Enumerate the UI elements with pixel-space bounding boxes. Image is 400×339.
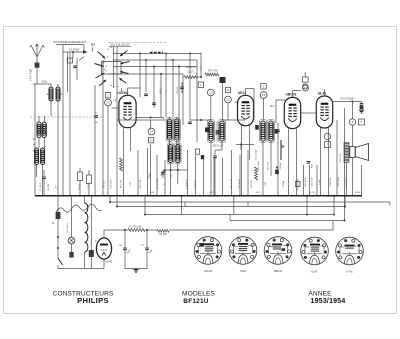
- coil S23 IF3 primary: [260, 120, 267, 143]
- coil S5: [35, 148, 39, 152]
- terminal circle 15b: [260, 92, 267, 99]
- tube V1 UCH42: [119, 95, 136, 127]
- resistor R51 blob: [89, 250, 94, 257]
- wire ift2 tails: [210, 141, 212, 196]
- terminal circle 9: [349, 119, 355, 125]
- antenna: [30, 44, 44, 57]
- terminal circle 10: [207, 89, 214, 96]
- wire HT rail 2: [117, 206, 345, 208]
- wire dial lamp: [304, 72, 306, 77]
- wire left component stubs: [79, 168, 81, 172]
- svg-text:50nF: 50nF: [149, 173, 151, 179]
- wire osc verticals: [139, 54, 141, 98]
- coil L23: [175, 143, 182, 164]
- capacitor C41: [307, 161, 311, 163]
- wire UBC41 pins: [288, 128, 290, 196]
- svg-text:UY41: UY41: [106, 260, 113, 264]
- svg-text:110-127V: 110-127V: [67, 223, 69, 233]
- tube base UBC41: [264, 237, 292, 265]
- wire ift1 core: [172, 119, 174, 140]
- svg-text:C10 50nF: C10 50nF: [111, 179, 113, 189]
- wire mid horizontals: [117, 119, 151, 121]
- tube base UL41: [301, 237, 329, 265]
- terminal box 3: [261, 84, 266, 89]
- svg-text:C4 470: C4 470: [177, 86, 179, 94]
- tube base UF41: [229, 237, 257, 265]
- svg-text:425-112pF: 425-112pF: [213, 146, 225, 148]
- svg-text:UY41: UY41: [346, 270, 353, 274]
- svg-text:UBC41: UBC41: [274, 269, 283, 273]
- capacitor osc caps: [144, 93, 148, 95]
- tube base UCH42: [194, 237, 222, 265]
- wire speaker leads: [346, 163, 348, 197]
- svg-text:UF41: UF41: [238, 91, 246, 95]
- svg-text:+85V: +85V: [149, 192, 155, 194]
- wire grid link: [236, 144, 254, 146]
- volume potentiometer R30: [280, 140, 282, 160]
- svg-text:14: 14: [150, 130, 154, 134]
- wire band bus 3: [113, 66, 197, 68]
- svg-text:UCH42: UCH42: [204, 269, 213, 273]
- coil S22 IF2 secondary: [219, 120, 226, 143]
- capacitor C4 470: [180, 86, 184, 88]
- resistor R52: [128, 229, 145, 232]
- wire right verticals: [303, 165, 305, 196]
- coil L21 osc: [173, 118, 180, 142]
- wire osc coil links: [38, 116, 40, 122]
- wire UF41 pins: [241, 126, 243, 197]
- terminal circle 10 grid: [105, 99, 112, 106]
- wire HT rail 4: [230, 220, 345, 222]
- svg-text:C46 0.02: C46 0.02: [340, 153, 342, 163]
- wire UCH42 grid: [107, 106, 109, 196]
- resistor R27 vertical: [255, 167, 258, 180]
- wire ift3 core: [266, 121, 268, 141]
- wire terminal drop: [150, 120, 152, 130]
- svg-text:243a: 243a: [41, 81, 47, 84]
- svg-text:PU/CADRE ANTENNE EXT: PU/CADRE ANTENNE EXT: [53, 40, 87, 44]
- terminal circle 15: [225, 96, 232, 103]
- terminal box 12: [225, 88, 230, 93]
- svg-text:R6 0.7M: R6 0.7M: [268, 162, 270, 170]
- svg-text:R27 1M: R27 1M: [251, 180, 253, 188]
- svg-text:10: 10: [209, 91, 213, 95]
- wire dashed core: [30, 116, 104, 118]
- wire UL41 pins: [320, 128, 322, 197]
- capacitor C9 box: [87, 175, 92, 184]
- svg-text:UF41: UF41: [240, 269, 247, 273]
- svg-text:R33 0.47M: R33 0.47M: [298, 178, 300, 189]
- wire mains bottom: [58, 268, 104, 270]
- wire heater rail: [104, 229, 128, 231]
- svg-text:+62V: +62V: [255, 192, 261, 194]
- coil S4 osc secondary: [42, 122, 46, 126]
- capacitor C25: [276, 129, 280, 131]
- svg-text:C1 47nF: C1 47nF: [40, 182, 42, 191]
- svg-text:UL41: UL41: [318, 92, 326, 96]
- svg-text:PHILIPS: PHILIPS: [77, 296, 109, 305]
- capacitor C22 padding: [216, 130, 220, 135]
- capacitor C21 square: [205, 128, 209, 133]
- wire ift2 core: [215, 121, 217, 141]
- svg-text:ANNEE: ANNEE: [308, 290, 332, 297]
- speaker LS: [350, 147, 355, 158]
- wire antenna lead: [36, 57, 38, 63]
- svg-text:C6 470pF: C6 470pF: [69, 49, 80, 52]
- wire UY41 leads: [103, 230, 105, 238]
- resistor R5 vertical: [120, 158, 123, 171]
- capacitor C35 blob: [275, 170, 279, 175]
- svg-text:R44 150: R44 150: [330, 177, 332, 186]
- svg-text:15: 15: [262, 93, 266, 97]
- wire HT rail 3: [145, 214, 334, 216]
- coil S1 aerial primary: [49, 87, 53, 91]
- lamp symbol dial: [302, 77, 308, 82]
- svg-text:0.1µF: 0.1µF: [319, 179, 321, 185]
- capacitor C8 box: [78, 172, 83, 181]
- svg-text:C45 22nF: C45 22nF: [338, 177, 340, 187]
- svg-text:C1 10: C1 10: [187, 71, 194, 74]
- terminal box 7: [325, 142, 331, 148]
- svg-text:+185V: +185V: [354, 192, 361, 194]
- capacitor group det: [196, 149, 200, 154]
- wire HT rail 1: [110, 201, 390, 203]
- wire switch verticals: [113, 47, 115, 88]
- wire band bus 4: [108, 73, 183, 75]
- wire coil bottoms: [36, 165, 38, 178]
- capacitor C24 square: [255, 125, 259, 130]
- terminal box 2: [105, 93, 110, 98]
- wire rail drops: [109, 196, 111, 202]
- ground C44: [359, 109, 364, 111]
- svg-text:3300pF: 3300pF: [280, 162, 282, 170]
- svg-text:UBC41: UBC41: [285, 93, 296, 97]
- chassis ground bus: [35, 195, 362, 197]
- pilot lamp E10: [71, 196, 73, 237]
- wire UBC41 top: [292, 91, 294, 98]
- resistor R50 dropper curls: [84, 196, 86, 203]
- wire output lead: [352, 102, 354, 119]
- svg-text:1.25-112pF: 1.25-112pF: [256, 149, 258, 161]
- ground smoothing: [133, 269, 138, 271]
- terminal box 13: [148, 138, 153, 143]
- svg-text:R1 1M: R1 1M: [48, 184, 50, 191]
- wire UCH42 pins: [123, 127, 125, 196]
- coil S3 osc primary: [37, 122, 41, 126]
- svg-text:10: 10: [106, 101, 110, 105]
- wire ift2 feed: [227, 103, 229, 120]
- svg-text:8-2200µF: 8-2200µF: [346, 177, 348, 187]
- svg-text:R1 400: R1 400: [159, 234, 167, 236]
- tube V4 UL41: [316, 96, 332, 128]
- wire ift3 tails: [262, 141, 264, 196]
- wire UF41 top: [245, 89, 247, 96]
- wire UL41 top anode: [324, 89, 326, 96]
- wire dark dashes: [150, 52, 163, 54]
- svg-text:UCH42: UCH42: [117, 91, 128, 95]
- svg-text:R40 470k: R40 470k: [305, 176, 307, 186]
- capacitor C51: [145, 247, 149, 249]
- svg-text:R17 47k: R17 47k: [208, 70, 218, 73]
- wire mid verticals: [121, 88, 123, 92]
- resistor R53: [157, 229, 169, 232]
- capacitor AVC link: [94, 115, 98, 117]
- tube V5 UY41: [96, 238, 111, 259]
- svg-text:BF121U: BF121U: [183, 298, 209, 305]
- wire mixer drops: [210, 96, 212, 120]
- transformer S30 output: [344, 143, 349, 163]
- svg-text:C1 4-70pF: C1 4-70pF: [29, 68, 33, 81]
- terminal small box: [295, 182, 300, 187]
- capacitor C15 electrolytic: [220, 77, 226, 83]
- wire band bus 2: [113, 59, 197, 61]
- terminal circle 7: [324, 133, 330, 139]
- svg-text:AF2: AF2: [270, 105, 275, 108]
- coil S6: [41, 148, 45, 152]
- terminal circle 14: [148, 128, 155, 135]
- svg-text:R51 1.8k: R51 1.8k: [140, 179, 142, 189]
- tube V2 UF41: [238, 95, 254, 125]
- capacitor C50: [123, 247, 127, 249]
- wire smoothing drops: [124, 230, 126, 247]
- svg-text:+82V: +82V: [209, 192, 215, 194]
- capacitor small C7: [68, 58, 73, 63]
- svg-text:C44 4700pF: C44 4700pF: [340, 98, 354, 101]
- coil S21 IF2 primary: [208, 120, 215, 143]
- svg-text:R3 22n: R3 22n: [104, 180, 106, 188]
- svg-text:1953/1954: 1953/1954: [311, 298, 346, 305]
- switch wafer box: [102, 62, 122, 75]
- svg-text:AF1: AF1: [235, 101, 240, 104]
- svg-text:R16 4.7k: R16 4.7k: [186, 66, 196, 69]
- capacitor trimmer C20: [161, 172, 165, 174]
- capacitor C1 trimmer: [35, 63, 40, 68]
- terminal box 9: [359, 119, 365, 125]
- svg-text:B1: B1: [91, 43, 95, 47]
- svg-text:+170V: +170V: [309, 192, 316, 194]
- wire ift1 bottoms: [170, 163, 172, 197]
- tube V3 UBC41: [284, 97, 300, 128]
- svg-text:15: 15: [226, 98, 230, 102]
- fuse F1: [57, 196, 59, 212]
- svg-text:M: M: [33, 145, 35, 147]
- wire smoothing bottoms: [124, 250, 126, 269]
- capacitor C23: [213, 155, 217, 157]
- svg-text:R5 2.2M: R5 2.2M: [121, 180, 123, 188]
- wire fuse lead: [57, 219, 59, 258]
- svg-text:UL41: UL41: [311, 270, 318, 274]
- svg-text:MODELES: MODELES: [182, 290, 215, 297]
- switch mains: [58, 258, 63, 265]
- wire antenna to coil: [36, 68, 38, 84]
- terminal circle top: [303, 85, 309, 91]
- coil L22: [167, 143, 174, 164]
- coil S2 aerial secondary: [56, 87, 60, 91]
- svg-text:0.05µF: 0.05µF: [283, 180, 285, 188]
- wire wavy lead: [56, 204, 102, 212]
- wire band bus 1: [113, 53, 201, 55]
- wire screen feed: [102, 60, 104, 90]
- coil L20 osc: [166, 118, 173, 142]
- svg-text:C31 10nF: C31 10nF: [258, 161, 260, 171]
- wire dashed top link: [108, 42, 166, 44]
- wire pickup links: [63, 51, 86, 53]
- svg-text:S1a S1b S2a S3: S1a S1b S2a S3: [110, 43, 130, 47]
- terminal box 1: [198, 82, 203, 87]
- svg-text:C42 47nF: C42 47nF: [312, 177, 314, 187]
- wire ift1 stubs: [163, 118, 165, 120]
- wire coil stubs: [50, 84, 52, 87]
- tube base UY41: [336, 237, 364, 265]
- wire lamp lead: [71, 244, 73, 252]
- switch S1 rotary wafer: [98, 52, 104, 57]
- capacitor C26 square: [275, 129, 279, 134]
- coil S24 IF3 secondary: [268, 120, 275, 143]
- svg-text:AF(1): AF(1): [159, 88, 162, 94]
